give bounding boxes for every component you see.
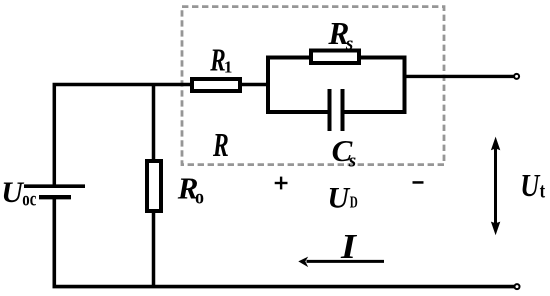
resistor Ro [147,161,161,211]
wire RC bottom branch right [343,110,406,114]
wire Ro bottom stub [152,211,156,288]
wire RC block right vertical [403,56,407,115]
svg-text:I: I [340,227,358,266]
svg-text:t: t [540,179,546,203]
dashed network box [182,7,444,165]
svg-text:o: o [195,187,204,209]
label + [275,177,288,190]
wire Ro top stub [152,85,156,163]
label R1 [210,43,233,78]
svg-text:U: U [1,176,24,209]
wire RC top branch left [266,56,313,60]
wire RC bottom branch left [266,110,329,114]
label Ut [520,167,545,203]
wire RC top branch right [357,56,406,60]
resistor Rs [311,51,359,64]
label Cs [332,133,357,171]
terminal top [514,74,519,79]
wire RC block left vertical [266,56,270,115]
wire output to terminal [404,75,514,78]
wire R1 to RC block [240,83,270,87]
svg-text:s: s [345,33,353,54]
voltage source Uoc [24,186,85,197]
svg-text:s: s [348,151,356,172]
label Uoc [1,176,36,211]
svg-text:oc: oc [22,187,36,211]
capacitor Cs [330,89,343,131]
wire battery bottom + bottom horizontal [54,196,514,287]
label Ro [177,170,204,208]
svg-text:U: U [520,167,541,203]
wire left vertical + top horizontal (battery to R1) [54,85,192,186]
label Rs [327,16,353,54]
label minus [413,181,424,184]
resistor R1 [192,79,240,91]
svg-text:U: U [327,182,350,215]
svg-text:D: D [350,193,358,212]
svg-text:1: 1 [224,58,233,77]
svg-text:R: R [212,127,228,164]
terminal bottom [515,284,520,289]
label UD [327,182,357,215]
arrow Ut (double-headed) [491,137,500,236]
current arrow I [298,257,384,268]
